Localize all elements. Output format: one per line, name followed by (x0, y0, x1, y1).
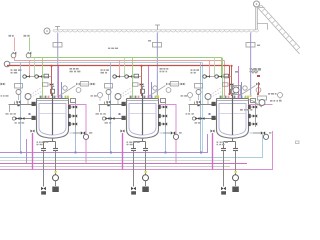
chain feed inlet tick (155, 25, 160, 30)
pipe drain right R-103 (235, 150, 237, 174)
flange lt R-101 (17, 104, 19, 106)
flange right 1 R-102 (158, 114, 161, 118)
agitator stem R-102 (141, 87, 145, 90)
label feed block R-103 (191, 69, 200, 71)
pipe header pink corner down (224, 61, 226, 97)
wire mid stem R-101 (99, 98, 101, 102)
pipe bottom outlet R-101 (44, 138, 56, 148)
label lt R-103 (181, 95, 188, 96)
label transfer R-102 (179, 132, 182, 133)
valve right 2 R-101 (73, 122, 77, 125)
label outlet R-102 (127, 142, 140, 143)
pipe right stub 2 R-102 (159, 123, 166, 125)
vessel inner shell R-103 (219, 104, 246, 136)
pipe right stub 0 R-102 (159, 106, 166, 108)
label transfer R-101 (89, 132, 92, 133)
label outlet R-101 (37, 142, 49, 143)
pipe right stub 0 R-101 (69, 106, 76, 108)
instrument man A R-101 (23, 75, 26, 78)
valve man B R-101 (38, 75, 42, 78)
pipe header green corner down (221, 58, 223, 79)
label outlet2 R-102 (127, 144, 133, 145)
pipe drain left R-101 (43, 151, 45, 187)
junction dot header R-102 (165, 152, 167, 154)
valve sloped feeder R-102 (166, 83, 170, 86)
label left lower R-102 (105, 122, 112, 123)
label right top b (252, 69, 261, 71)
wire lc link R-101 (0, 83, 6, 85)
label right block b (270, 100, 282, 102)
label feed block2 R-101 (11, 72, 18, 74)
pump discharge R-103 (233, 175, 239, 181)
pipe manifold row R-101 (23, 76, 52, 78)
label rotary 2 (257, 45, 260, 46)
valve man A R-102 (116, 75, 120, 78)
valve below manifold R-103 (230, 83, 234, 86)
box above PI right (258, 96, 267, 100)
pipe header pink (14, 60, 225, 62)
drain spade R-102 (131, 191, 136, 194)
label outlet R-103 (217, 142, 229, 143)
vessel inner shell R-102 (129, 104, 156, 136)
label feed block2 R-102 (101, 72, 108, 74)
wire pump tail R-103 (235, 181, 237, 186)
flange right 0 R-102 (158, 105, 161, 109)
pipe header red corner down (228, 66, 230, 96)
pipe sloped feeder R-102 (148, 86, 165, 97)
junction red header R-102 (140, 65, 142, 67)
label left R-103 (186, 113, 194, 114)
valve left lower A R-103 (196, 117, 200, 120)
agitator shaft R-101 (52, 93, 54, 135)
instrument PI right (259, 100, 265, 106)
flange right 1 R-101 (68, 114, 71, 118)
flange right 2 R-101 (68, 122, 71, 126)
signal dashes R-103 (211, 88, 223, 98)
pipe right stack column R-101 (75, 103, 77, 128)
chain inlet tick 0 (55, 27, 60, 30)
wire drop from chain at x251 (violet) (250, 33, 252, 98)
label spec block2 R-103 (250, 71, 259, 73)
wire pink drop to R-103 (209, 60, 211, 76)
instrument LT R-103 (196, 90, 201, 95)
pipe bottom cyan header (0, 134, 263, 158)
wire violet drain R-101 left (26, 139, 28, 164)
instrument TI R-103 (205, 94, 211, 100)
valve man A R-103 (206, 75, 210, 78)
wire lc link R-103 (167, 83, 186, 85)
label left R-102 (96, 113, 106, 114)
rotary valve box 0 (53, 43, 62, 48)
pipe bottom outlet R-103 (224, 138, 236, 148)
wire ti stem R-102 (117, 100, 119, 105)
valve ticks left R-102 (105, 102, 111, 105)
station box2 R-103 (223, 83, 229, 86)
instrument TI R-101 (25, 94, 31, 100)
valve lc R-103 (181, 83, 185, 86)
valve riser B R-103 (211, 130, 215, 133)
pipe bottom pale green header (0, 160, 230, 162)
signal dashes R-101 (31, 88, 43, 98)
agitator shaft R-102 (142, 93, 144, 135)
pipe bottom magenta header 1 (0, 163, 247, 165)
pipe header red (7, 65, 230, 67)
wire cyan down from stack R-101 (75, 127, 77, 153)
rotary valve box 2 (246, 43, 255, 48)
junction dot header2 R-102 (110, 152, 112, 154)
valve transfer R-103 (261, 131, 265, 134)
nozzle box shoulder R-101 (71, 99, 76, 103)
wire left col R-102 (99, 104, 101, 112)
wire red stub right (258, 82, 260, 93)
instrument man B R-103 (215, 75, 218, 78)
pipe drain right R-102 (145, 150, 147, 174)
flange nozzle left upper R-103 (212, 102, 216, 106)
flanges outlet R-103 (221, 149, 238, 151)
wire feed line 2 (green) (29, 38, 31, 52)
pipe drain left R-103 (223, 151, 225, 187)
wire blue drop to R-102 (151, 82, 153, 96)
junction yellow R-102 (145, 171, 147, 173)
signal dashes R-102 (121, 88, 133, 98)
pipe manifold row R-103 (203, 76, 232, 78)
instrument vent R-103 (243, 86, 247, 90)
wire pump tail R-102 (145, 181, 147, 186)
instrument man A R-103 (203, 75, 206, 78)
valve feed 2 (28, 52, 32, 55)
label feed block R-101 (11, 69, 22, 71)
wire blue drop to R-101 (61, 82, 63, 96)
label left lower R-103 (195, 122, 201, 123)
valve ticks left R-103 (195, 102, 201, 105)
vessel jacket R-101 (37, 99, 69, 139)
valve riser B R-102 (121, 130, 125, 133)
wire cyan tick transfer R-103 (250, 132, 254, 134)
label above chain (108, 48, 118, 49)
pipe left upper R-102 (99, 104, 127, 106)
top nozzles R-103 (220, 96, 249, 99)
agitator stem R-103 (231, 87, 235, 90)
label transfer R-103 (269, 132, 271, 133)
pipe drain right R-101 (55, 150, 57, 174)
pipe drain left R-102 (133, 151, 135, 187)
elevator head sprocket (254, 1, 260, 7)
pump discharge R-102 (143, 175, 149, 181)
wire pump tail R-101 (55, 181, 57, 186)
wire cyan tick transfer R-102 (160, 132, 164, 134)
wire pale green drop R-103 (214, 58, 216, 77)
flange lt R-103 (197, 104, 199, 106)
pump base R-102 (142, 187, 149, 193)
valve sloped feeder R-101 (76, 83, 80, 86)
valve transfer R-102 (171, 131, 175, 134)
valve transfer R-101 (81, 131, 85, 134)
pipe left lower R-102 (104, 118, 127, 120)
instrument LT R-101 (16, 90, 21, 95)
vessel jacket R-103 (217, 99, 249, 139)
station box R-103 (224, 74, 229, 78)
instrument LT R-102 (106, 90, 111, 95)
junction blue dot R-103 (209, 113, 211, 115)
agitator motor R-103 (231, 89, 235, 93)
label left lower R-101 (15, 122, 25, 123)
valve lt R-102 (107, 101, 111, 104)
junction dot header2 R-103 (200, 152, 202, 154)
pipe sloped feeder R-101 (58, 86, 75, 97)
box LT R-103 (195, 84, 203, 89)
valve left lower A R-101 (16, 117, 20, 120)
label spec block2 R-101 (70, 71, 81, 73)
instrument man B R-101 (35, 75, 38, 78)
instrument vent R-101 (63, 86, 67, 90)
label spec block2 R-102 (160, 71, 168, 73)
instrument mid R-103 (278, 93, 283, 98)
agitator shaft R-103 (232, 93, 234, 135)
valve right 1 R-102 (163, 114, 167, 117)
pipe bottom outlet R-102 (134, 138, 146, 148)
valve drain R-103 (221, 187, 226, 191)
pipe header cyan corner down (202, 63, 204, 153)
instrument PI header (4, 61, 10, 67)
pipe header cyan (10, 62, 203, 64)
wire drop from chain at x157 (violet) (156, 33, 158, 97)
wire red drop to R-102 (141, 67, 143, 97)
label right top a (235, 71, 238, 73)
station box2 R-101 (43, 83, 49, 86)
reactor unit 2 (77, 58, 193, 195)
red mark right (257, 75, 260, 77)
wire cyan down from stack R-102 (165, 127, 167, 153)
pipe left upper R-101 (9, 104, 37, 106)
pipe bottom pale grey header (0, 166, 230, 168)
instrument mid R-101 (98, 93, 103, 98)
flange right 1 R-103 (248, 114, 251, 118)
pipe magenta riser R-101 (69, 105, 87, 164)
valve lt R-103 (197, 101, 201, 104)
flange nozzle left upper R-101 (32, 102, 36, 106)
valve riser B R-101 (31, 130, 35, 133)
label lt R-101 (1, 95, 9, 96)
label right top c (252, 72, 257, 74)
label feed N2 (24, 35, 30, 37)
instrument man A R-102 (113, 75, 116, 78)
pipe manifold row R-102 (113, 76, 142, 78)
valve left lower B R-101 (21, 117, 25, 120)
box LC R-102 (81, 82, 89, 87)
valve ticks left R-101 (15, 102, 21, 105)
junction dot header R-101 (75, 152, 77, 154)
top nozzles R-102 (130, 96, 159, 99)
valve right 0 R-103 (253, 105, 257, 108)
valve man B R-103 (218, 75, 222, 78)
instrument vent R-102 (153, 86, 157, 90)
label spec block R-103 (250, 68, 261, 70)
wire red drop to R-101 (51, 67, 53, 97)
agitator motor R-102 (141, 89, 145, 93)
valve lc R-102 (91, 83, 95, 86)
station box R-101 (44, 74, 49, 78)
valve feed 1 (13, 52, 17, 55)
elevator connector L (257, 24, 267, 30)
wire blue drop to R-103 (241, 82, 243, 96)
station box2 R-102 (133, 83, 139, 86)
pipe transfer R-103 (253, 132, 261, 134)
wire magenta drop to R-101 (58, 66, 60, 96)
pipe right stack column R-103 (255, 103, 257, 128)
valve right 2 R-103 (253, 122, 257, 125)
label feed block2 R-103 (191, 72, 196, 74)
pipe magenta riser R-103 (249, 104, 273, 106)
valve right 0 R-101 (73, 105, 77, 108)
instrument shoulder R-103 (256, 88, 261, 93)
valve lc R-101 (1, 83, 5, 86)
drain spade R-103 (221, 191, 226, 194)
valve left lower B R-103 (201, 117, 205, 120)
wire left col R-101 (9, 104, 11, 112)
wire red drop to R-103 (231, 67, 233, 97)
valve man B R-102 (128, 75, 132, 78)
pump transfer R-101 (83, 134, 88, 139)
junction yellow drop 0 (57, 95, 59, 97)
wire left col R-103 (189, 104, 191, 112)
box LT R-102 (105, 84, 113, 89)
nozzle box shoulder R-103 (251, 99, 256, 103)
pipe bottom magenta header 2 (0, 131, 273, 170)
wire lt stem R-103 (198, 95, 200, 101)
instrument TI R-102 (115, 94, 121, 100)
valve drain R-101 (41, 187, 46, 191)
elevator head tick (259, 7, 265, 9)
junction blue dot R-101 (29, 113, 31, 115)
drain spade R-101 (41, 191, 46, 194)
wire cyan drop at R-103 left (200, 63, 202, 153)
wire green drop to R-103 (222, 58, 224, 97)
wire feed1 tail (14, 58, 16, 61)
pipe left lower R-101 (14, 118, 37, 120)
pump base R-101 (52, 187, 59, 193)
pipe right stub 2 R-103 (249, 123, 256, 125)
instrument TI feed1 (11, 53, 16, 58)
valve right 1 R-103 (253, 114, 257, 117)
rotary valve box 1 (153, 43, 162, 48)
pipe right stub 1 R-102 (159, 115, 166, 117)
junction red header R-101 (50, 65, 52, 67)
label rotary 1 (148, 40, 151, 41)
instrument drain R-101 (12, 117, 15, 120)
junction dot header2 R-101 (20, 152, 22, 154)
pipe magenta riser B R-101 (32, 133, 34, 170)
label spec block R-102 (160, 68, 169, 70)
wire pale green drop R-101 (34, 58, 36, 77)
valve right 0 R-102 (163, 105, 167, 108)
pipe left lower R-103 (194, 118, 217, 120)
flange nozzle left lower R-103 (212, 116, 216, 120)
valve right 1 R-101 (73, 114, 77, 117)
pipe left upper R-103 (189, 104, 217, 106)
label left R-101 (6, 113, 16, 114)
flange nozzle left lower R-101 (32, 116, 36, 120)
instrument in box right (233, 87, 239, 93)
pipe right stub 0 R-103 (249, 106, 256, 108)
wire green drop to R-101 (42, 58, 44, 97)
valve left lower A R-102 (106, 117, 110, 120)
junction blue dot R-102 (119, 113, 121, 115)
instrument TI feed2 (26, 53, 31, 58)
wire pink drop to R-102 (119, 60, 121, 76)
junction yellow R-101 (55, 171, 57, 173)
label feed block R-102 (101, 69, 109, 71)
nozzle box shoulder R-102 (161, 99, 166, 103)
pipe transfer R-101 (73, 132, 81, 134)
wire cyan drop at R-101 left (20, 63, 22, 153)
wire drop from chain at x64 (violet) (57, 33, 59, 97)
label outlet2 R-101 (37, 144, 43, 145)
elevator head drop leg (256, 7, 258, 30)
wire cyan tick transfer R-101 (70, 132, 74, 134)
junction red dot right (257, 93, 259, 95)
pipe arc vessel to PI right (249, 100, 263, 108)
wire pale green drop R-102 (124, 58, 126, 77)
flange lt R-102 (107, 104, 109, 106)
tiny mark top far right (296, 141, 300, 144)
instrument drain R-103 (192, 117, 195, 120)
wire ti stem R-103 (207, 100, 209, 105)
pipe sloped feeder R-103 (238, 86, 255, 97)
pipe transfer R-102 (163, 132, 171, 134)
label outlet2 R-103 (217, 144, 225, 145)
wire lt stem R-102 (108, 95, 110, 101)
pipe header green (29, 57, 222, 59)
pipe magenta riser B R-103 (212, 133, 214, 170)
inclined conveyor band (258, 5, 303, 54)
wire feed line 1 (red) (14, 38, 16, 52)
valve sloped feeder R-103 (256, 83, 260, 86)
valve below manifold R-102 (140, 83, 144, 86)
junction yellow drop 1 (156, 95, 158, 97)
reactor unit 1 (0, 58, 103, 195)
flanges outlet R-101 (41, 149, 58, 151)
flange right 0 R-101 (68, 105, 71, 109)
pipe right stack column R-102 (165, 103, 167, 128)
station box R-102 (134, 74, 139, 78)
instrument shoulder R-102 (166, 88, 171, 93)
pump discharge R-101 (53, 175, 59, 181)
flange right 0 R-103 (248, 105, 251, 109)
instrument box right (232, 86, 241, 95)
pipe magenta riser B R-102 (122, 133, 124, 170)
wire lc link R-102 (77, 83, 96, 85)
instrument mid R-102 (188, 93, 193, 98)
conveyor drive sprocket (44, 28, 50, 34)
top nozzles R-101 (40, 96, 69, 99)
valve below manifold R-101 (50, 83, 54, 86)
wire ti stem R-101 (27, 100, 29, 105)
wire lt stem R-101 (18, 95, 20, 101)
instrument shoulder R-101 (76, 88, 81, 93)
junction yellow R-103 (235, 171, 237, 173)
pipe bottom violet header (0, 134, 208, 153)
label right block c (240, 109, 252, 111)
wire cyan drop at R-102 left (110, 63, 112, 153)
valve lt R-101 (17, 101, 21, 104)
valve drain R-102 (131, 187, 136, 191)
pipe magenta riser R-102 (159, 105, 177, 164)
chain conveyor horizontal (53, 30, 259, 32)
box LC R-103 (171, 82, 179, 87)
junction yellow drop 2 (250, 95, 252, 97)
pump transfer R-103 (263, 134, 268, 139)
valve left lower B R-102 (111, 117, 115, 120)
